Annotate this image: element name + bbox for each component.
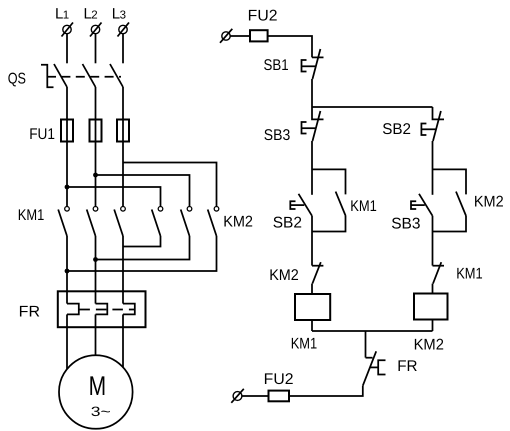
- wire phase2 branch to KM2 pole2: [96, 175, 190, 206]
- svg-text:2: 2: [91, 10, 97, 22]
- wire parallel top rail left: [312, 169, 346, 194]
- fuse FU1 phase 2: [90, 120, 102, 142]
- wire parallel bottom rail left: [312, 216, 346, 232]
- svg-text:3: 3: [120, 10, 126, 22]
- coil KM1: [295, 294, 330, 320]
- wire SB3 down left branch: [311, 141, 313, 195]
- wire FR contact to FU2 bottom: [289, 386, 363, 396]
- label L3: [112, 6, 126, 23]
- wire QS to KM1 contact phase 2: [95, 87, 97, 206]
- wire FR to motor phase 1: [66, 314, 68, 369]
- svg-text:SB1: SB1: [264, 57, 289, 74]
- junction dot phase1 branch: [65, 185, 70, 190]
- terminal control bottom: [231, 389, 244, 403]
- wire FU2 bottom to terminal: [242, 395, 269, 397]
- label L2: [84, 6, 98, 23]
- wire L2 terminal to QS: [95, 34, 97, 64]
- junction dot phase2 branch: [93, 173, 98, 178]
- wire crossover KM2 pole3 to phase1: [67, 236, 217, 271]
- bottom rail: [312, 330, 433, 332]
- svg-text:1: 1: [63, 10, 69, 22]
- pushbutton SB1 stop NC: [302, 49, 324, 79]
- FR heater element phase 3: [123, 304, 135, 315]
- wire crossover KM2 pole2 to phase2: [96, 236, 190, 260]
- wire coil KM2 to bottom rail: [432, 320, 434, 332]
- motor M circle: [59, 355, 133, 429]
- wire KM1 pole3 down to FR: [122, 236, 124, 304]
- svg-text:SB3: SB3: [264, 127, 291, 144]
- wire crossover KM2 pole1 to phase3: [123, 236, 161, 247]
- label L1: [55, 6, 69, 23]
- node A rail: [312, 106, 433, 108]
- svg-text:KM1: KM1: [18, 207, 45, 224]
- wire left branch middle: [311, 216, 313, 266]
- svg-text:KM1: KM1: [350, 198, 377, 215]
- wire KM1 pole1 down to FR: [66, 236, 68, 304]
- svg-text:KM2: KM2: [474, 193, 504, 210]
- svg-text:FU2: FU2: [264, 371, 294, 388]
- svg-text:FR: FR: [19, 304, 40, 321]
- wire L3 terminal to QS: [122, 34, 124, 64]
- switch QS pole 1 blade: [54, 64, 67, 87]
- wire FU2 to SB1: [268, 36, 312, 57]
- svg-text:3~: 3~: [91, 404, 111, 419]
- svg-text:QS: QS: [8, 70, 26, 87]
- svg-text:FU1: FU1: [29, 126, 55, 143]
- fuse FU1 phase 1: [61, 120, 73, 142]
- wire L1 terminal to QS: [66, 34, 68, 64]
- wire interlock to coil KM1: [311, 284, 313, 294]
- wire FR to motor phase 3: [122, 314, 124, 367]
- fuse FU2 bottom: [269, 391, 290, 402]
- wire KM1 pole2 down to FR: [95, 236, 97, 304]
- svg-text:KM2: KM2: [414, 337, 444, 354]
- switch QS handle bracket: [41, 65, 54, 88]
- switch QS pole 3 blade: [110, 64, 123, 87]
- junction dot crossover phase2: [93, 257, 98, 262]
- svg-text:FR: FR: [397, 358, 417, 375]
- coil KM2: [414, 294, 448, 320]
- wire phase1 branch to KM2 pole1: [67, 187, 161, 206]
- switch QS pole 2 blade: [83, 64, 96, 87]
- svg-text:KM1: KM1: [456, 266, 483, 283]
- contactor KM2 main contact pole 1: [152, 207, 163, 237]
- terminal L2: [90, 23, 102, 37]
- FR linkage dashed: [79, 309, 134, 311]
- contactor KM1 interlock NC right: [433, 262, 445, 283]
- pushbutton SB3 start NO right: [411, 194, 433, 216]
- contactor KM2 main contact pole 2: [181, 207, 192, 237]
- svg-text:KM1: KM1: [291, 336, 318, 353]
- junction dot crossover phase1: [65, 269, 70, 274]
- wire SB1 to node A: [311, 79, 313, 107]
- wire interlock to coil KM2: [432, 284, 434, 294]
- pushbutton SB2 start NO left: [290, 194, 312, 216]
- wire coil KM1 to bottom rail: [311, 320, 313, 331]
- wire bottom rail to FR contact: [365, 331, 367, 358]
- FR heater element phase 1: [67, 304, 79, 315]
- terminal L3: [118, 23, 130, 37]
- wire SB2 down right branch: [432, 141, 434, 195]
- FR heater element phase 2: [96, 304, 108, 315]
- wire FR to motor phase 2: [95, 314, 97, 355]
- thermal relay FR contact NC: [363, 351, 386, 385]
- fuse FU1 phase 3: [117, 120, 129, 142]
- svg-text:M: M: [89, 371, 107, 401]
- wire phase3 branch to KM2 pole3: [123, 163, 217, 207]
- svg-text:KM2: KM2: [223, 214, 253, 231]
- switch QS linkage dashed: [47, 76, 121, 78]
- contactor KM2 interlock NC left: [312, 262, 323, 283]
- terminal L1: [62, 23, 74, 37]
- svg-text:KM2: KM2: [269, 267, 299, 284]
- contactor KM1 main contact pole 1: [58, 207, 69, 237]
- svg-text:SB3: SB3: [391, 216, 420, 233]
- wire right branch middle: [432, 216, 434, 266]
- thermal relay FR box: [58, 291, 146, 327]
- svg-text:SB2: SB2: [382, 121, 411, 138]
- contactor KM2 main contact pole 3: [208, 207, 219, 237]
- pushbutton SB3 NC left branch: [302, 107, 324, 141]
- contactor KM1 main contact pole 2: [87, 207, 98, 237]
- svg-text:FU2: FU2: [248, 8, 278, 25]
- contactor KM1 aux contact: [336, 192, 346, 216]
- svg-text:SB2: SB2: [273, 215, 302, 232]
- wire QS to KM1 contact phase 3: [122, 87, 124, 206]
- contactor KM1 main contact pole 3: [114, 207, 125, 237]
- pushbutton SB2 NC right branch: [421, 107, 444, 141]
- terminal control top: [220, 29, 232, 43]
- wire parallel bottom rail right: [433, 216, 467, 232]
- contactor KM2 aux contact: [456, 192, 466, 216]
- fuse FU2 top: [250, 30, 268, 41]
- wire terminal to FU2: [230, 35, 250, 37]
- wire QS to KM1 contact phase 1: [66, 87, 68, 206]
- wire parallel top rail right: [433, 169, 467, 194]
